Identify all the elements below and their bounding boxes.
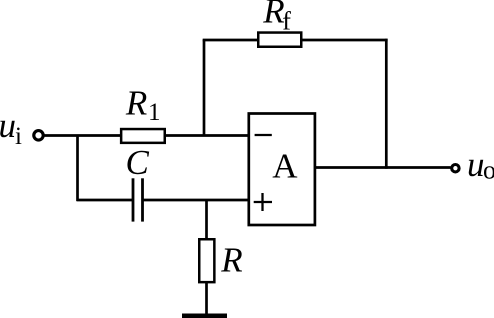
wire input to R1 [45,134,122,137]
wire branch down to R [205,200,208,239]
svg-text:1: 1 [148,99,161,126]
capacitor C plates [133,178,143,221]
wire node branch down at input [76,136,79,202]
ground [182,314,227,318]
wire R1 to op-amp inverting input [166,134,250,137]
wire lower rail left to capacitor [77,199,134,202]
svg-text:R: R [125,84,147,123]
svg-text:i: i [15,123,22,150]
output terminal uo [452,165,459,172]
svg-text:o: o [483,156,494,185]
value label R1 [125,84,161,126]
wire capacitor to op-amp noninverting input [143,199,251,202]
op-amp plus sign [254,193,272,211]
op-amp minus sign [255,134,272,136]
svg-text:u: u [0,106,16,145]
svg-text:u: u [467,145,485,184]
node label ui [0,106,22,150]
op-amp U1 box [249,114,315,226]
svg-text:R: R [220,241,242,280]
svg-text:f: f [282,7,291,36]
wire Rf to right corner [303,39,388,42]
svg-text:C: C [126,143,150,182]
wire top rail left to Rf [203,39,258,42]
wire feedback vertical left [203,40,206,137]
wire R to ground [205,283,208,314]
wire op-amp output to terminal [315,166,451,169]
input terminal ui [34,131,43,140]
resistor R1 [121,129,165,143]
resistor R [199,239,214,282]
wire feedback vertical right [385,39,388,169]
resistor Rf [258,33,301,47]
node label uo [467,145,494,185]
value label Rf [262,0,291,36]
svg-text:A: A [272,147,298,186]
